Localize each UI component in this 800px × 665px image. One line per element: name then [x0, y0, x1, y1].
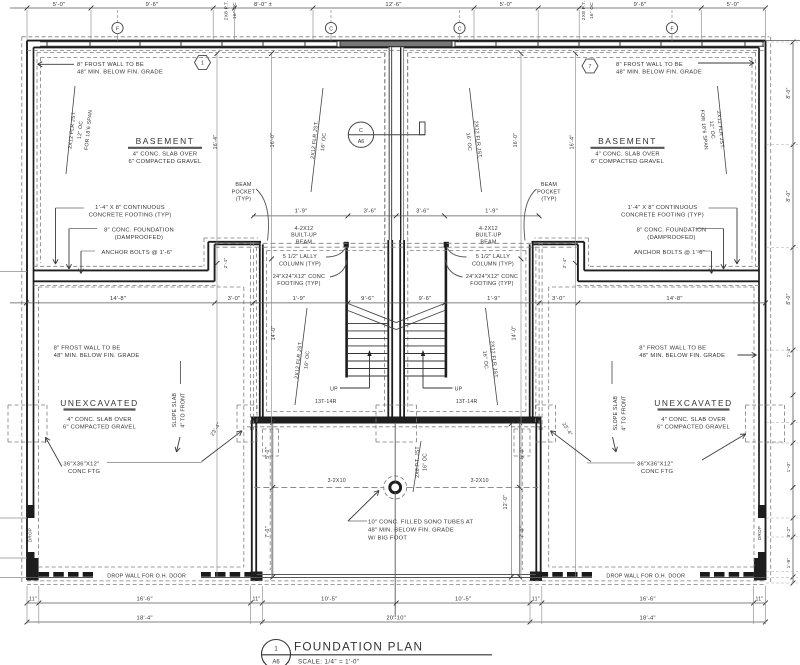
svg-text:36"X36"X12": 36"X36"X12" [637, 462, 673, 468]
svg-text:BEAM: BEAM [480, 239, 497, 245]
svg-text:6" COMPACTED GRAVEL: 6" COMPACTED GRAVEL [63, 425, 136, 431]
svg-text:4" TO FRONT: 4" TO FRONT [622, 395, 628, 431]
svg-text:3'-2": 3'-2" [786, 527, 792, 538]
svg-text:8'-0": 8'-0" [786, 190, 792, 201]
svg-text:POCKET: POCKET [232, 189, 256, 195]
svg-text:COLUMN (TYP): COLUMN (TYP) [472, 261, 514, 267]
svg-text:16'-0": 16'-0" [270, 133, 276, 148]
svg-text:48" MIN. BELOW FIN. GRADE: 48" MIN. BELOW FIN. GRADE [368, 528, 454, 534]
svg-text:8" FROST WALL TO BE: 8" FROST WALL TO BE [616, 62, 683, 68]
svg-text:UP: UP [455, 387, 463, 393]
svg-text:2X8 P.T.: 2X8 P.T. [224, 1, 230, 21]
svg-text:BEAM: BEAM [235, 182, 252, 188]
svg-text:3'-6": 3'-6" [416, 209, 429, 215]
svg-text:BASEMENT: BASEMENT [136, 136, 195, 146]
svg-text:DROP WALL FOR O.H. DOOR: DROP WALL FOR O.H. DOOR [606, 574, 685, 580]
svg-text:ANCHOR BOLTS @ 1'-6": ANCHOR BOLTS @ 1'-6" [102, 250, 173, 256]
svg-text:10'-5": 10'-5" [455, 597, 471, 603]
svg-text:4" TO FRONT: 4" TO FRONT [181, 392, 187, 428]
svg-text:5'-0": 5'-0" [520, 447, 526, 459]
svg-text:1'-4": 1'-4" [786, 347, 792, 358]
svg-text:9'-6": 9'-6" [634, 2, 647, 8]
svg-text:4" CONC. SLAB OVER: 4" CONC. SLAB OVER [661, 417, 726, 423]
svg-text:SCALE: 1/4" = 1'-0": SCALE: 1/4" = 1'-0" [298, 658, 360, 665]
svg-text:3'-0": 3'-0" [228, 296, 241, 302]
svg-text:C: C [458, 26, 462, 32]
svg-text:(TYP): (TYP) [236, 197, 251, 203]
svg-text:DROP: DROP [757, 526, 762, 540]
svg-text:A6: A6 [358, 139, 365, 145]
svg-text:16" OC: 16" OC [589, 2, 595, 19]
svg-text:C: C [329, 26, 333, 32]
svg-text:18'-4": 18'-4" [137, 616, 153, 622]
svg-text:1'-9": 1'-9" [485, 209, 498, 215]
svg-text:16'-4": 16'-4" [570, 135, 576, 150]
svg-text:7'-0": 7'-0" [265, 526, 271, 538]
svg-text:4-2X12: 4-2X12 [479, 226, 498, 232]
svg-text:BUILT-UP: BUILT-UP [291, 233, 317, 239]
svg-text:3-2X10: 3-2X10 [328, 478, 346, 484]
svg-text:48" MIN. BELOW FIN. GRADE: 48" MIN. BELOW FIN. GRADE [77, 69, 163, 75]
svg-text:11": 11" [29, 597, 37, 603]
svg-text:(TYP): (TYP) [541, 197, 556, 203]
svg-text:BEAM: BEAM [541, 182, 558, 188]
svg-text:24"X24"X12" CONC: 24"X24"X12" CONC [466, 274, 518, 280]
svg-text:(DAMPROOFED): (DAMPROOFED) [115, 235, 163, 241]
svg-text:1'-4" X 8" CONTINUOUS: 1'-4" X 8" CONTINUOUS [95, 205, 165, 211]
svg-text:CONCRETE FOOTING (TYP): CONCRETE FOOTING (TYP) [621, 212, 704, 218]
svg-text:FOUNDATION PLAN: FOUNDATION PLAN [294, 640, 423, 654]
svg-text:10'-5": 10'-5" [321, 597, 337, 603]
svg-text:FOOTING (TYP): FOOTING (TYP) [470, 281, 513, 287]
svg-text:16" OC: 16" OC [232, 2, 238, 19]
svg-text:5 1/2" LALLY: 5 1/2" LALLY [476, 254, 510, 260]
svg-text:9'-6": 9'-6" [361, 296, 374, 302]
svg-text:4" CONC. SLAB OVER: 4" CONC. SLAB OVER [595, 152, 660, 158]
svg-text:6" COMPACTED GRAVEL: 6" COMPACTED GRAVEL [657, 425, 730, 431]
svg-text:11": 11" [756, 597, 764, 603]
svg-text:6" COMPACTED GRAVEL: 6" COMPACTED GRAVEL [129, 159, 202, 165]
svg-text:9'-6": 9'-6" [146, 2, 159, 8]
svg-text:8" FROST WALL TO BE: 8" FROST WALL TO BE [54, 346, 121, 352]
svg-text:3-2X10: 3-2X10 [471, 478, 489, 484]
svg-text:(DAMPROOFED): (DAMPROOFED) [647, 235, 695, 241]
svg-text:1'-9": 1'-9" [487, 296, 500, 302]
svg-text:8'-0": 8'-0" [786, 87, 792, 98]
svg-text:10" CONC. FILLED SONO TUBES AT: 10" CONC. FILLED SONO TUBES AT [368, 520, 474, 526]
svg-text:5'-0": 5'-0" [265, 447, 271, 459]
svg-text:4-2X12: 4-2X12 [295, 226, 314, 232]
svg-text:UNEXCAVATED: UNEXCAVATED [654, 398, 733, 408]
svg-text:20'-10": 20'-10" [386, 616, 406, 622]
svg-text:5'-0": 5'-0" [53, 2, 66, 8]
svg-text:3'-6": 3'-6" [364, 209, 377, 215]
svg-text:DROP: DROP [27, 528, 32, 542]
svg-text:1'-9": 1'-9" [293, 296, 306, 302]
svg-text:16" OC: 16" OC [423, 453, 429, 471]
svg-text:13T-14R: 13T-14R [456, 399, 478, 405]
svg-text:11": 11" [253, 597, 261, 603]
svg-text:4" CONC. SLAB OVER: 4" CONC. SLAB OVER [67, 417, 132, 423]
svg-text:5 1/2" LALLY: 5 1/2" LALLY [283, 254, 317, 260]
svg-text:9'-6": 9'-6" [419, 296, 432, 302]
svg-text:4" CONC. SLAB OVER: 4" CONC. SLAB OVER [133, 152, 198, 158]
svg-text:36"X36"X12": 36"X36"X12" [63, 462, 99, 468]
svg-text:1'-4" X 8" CONTINUOUS: 1'-4" X 8" CONTINUOUS [628, 205, 698, 211]
svg-text:UNEXCAVATED: UNEXCAVATED [60, 398, 139, 408]
svg-text:16'-0": 16'-0" [513, 133, 519, 148]
svg-text:14'-8": 14'-8" [666, 296, 682, 302]
svg-text:FOOTING (TYP): FOOTING (TYP) [277, 281, 320, 287]
svg-text:POCKET: POCKET [537, 189, 561, 195]
svg-text:13T-14R: 13T-14R [315, 399, 337, 405]
svg-text:1: 1 [201, 61, 204, 67]
svg-text:24"X24"X12" CONC: 24"X24"X12" CONC [273, 274, 325, 280]
svg-text:18'-4": 18'-4" [640, 616, 656, 622]
svg-text:1'-0": 1'-0" [786, 462, 792, 473]
svg-text:16'-6": 16'-6" [640, 597, 656, 603]
svg-text:UP: UP [330, 387, 338, 393]
svg-text:2'-4": 2'-4" [562, 258, 568, 269]
svg-text:1'-9": 1'-9" [295, 209, 308, 215]
svg-text:CONCRETE FOOTING (TYP): CONCRETE FOOTING (TYP) [89, 212, 172, 218]
svg-text:BEAM: BEAM [296, 239, 313, 245]
svg-text:8" FROST WALL TO BE: 8" FROST WALL TO BE [77, 62, 144, 68]
svg-text:2X8 P.T.: 2X8 P.T. [581, 1, 587, 21]
svg-text:48" MIN. BELOW FIN. GRADE: 48" MIN. BELOW FIN. GRADE [639, 353, 725, 359]
svg-text:ANCHOR BOLTS @ 1'-6": ANCHOR BOLTS @ 1'-6" [634, 250, 705, 256]
svg-text:CONC FTG: CONC FTG [68, 469, 101, 475]
svg-text:1'-8": 1'-8" [786, 558, 792, 569]
svg-text:F: F [116, 26, 119, 32]
svg-text:48" MIN. BELOW FIN. GRADE: 48" MIN. BELOW FIN. GRADE [54, 353, 140, 359]
svg-text:8'-0": 8'-0" [786, 293, 792, 304]
svg-text:14'-0": 14'-0" [512, 326, 518, 341]
svg-text:A6: A6 [272, 660, 280, 665]
svg-text:14'-8": 14'-8" [110, 296, 126, 302]
svg-text:W/ BIG FOOT: W/ BIG FOOT [368, 536, 407, 542]
svg-text:8" FROST WALL TO BE: 8" FROST WALL TO BE [639, 346, 706, 352]
svg-text:DROP WALL FOR O.H. DOOR: DROP WALL FOR O.H. DOOR [107, 574, 186, 580]
svg-text:8'-0" ±: 8'-0" ± [254, 2, 272, 8]
svg-text:16'-4": 16'-4" [213, 135, 219, 150]
svg-text:SLOPE SLAB: SLOPE SLAB [172, 392, 178, 427]
svg-text:48" MIN. BELOW FIN. GRADE: 48" MIN. BELOW FIN. GRADE [616, 69, 702, 75]
svg-text:2'-4": 2'-4" [223, 258, 229, 269]
svg-text:F: F [670, 26, 673, 32]
svg-text:12'-0": 12'-0" [503, 495, 509, 510]
svg-text:6" COMPACTED GRAVEL: 6" COMPACTED GRAVEL [591, 159, 664, 165]
svg-text:5'-0": 5'-0" [727, 2, 740, 8]
svg-text:8" CONC. FOUNDATION: 8" CONC. FOUNDATION [104, 228, 174, 234]
svg-text:BUILT-UP: BUILT-UP [476, 233, 502, 239]
svg-text:COLUMN (TYP): COLUMN (TYP) [279, 261, 321, 267]
svg-text:CONC FTG: CONC FTG [641, 469, 674, 475]
svg-text:7'-0": 7'-0" [520, 526, 526, 538]
svg-text:14'-0": 14'-0" [271, 326, 277, 341]
svg-text:BASEMENT: BASEMENT [598, 136, 657, 146]
svg-text:5'-0": 5'-0" [500, 2, 513, 8]
svg-text:7: 7 [589, 64, 592, 70]
svg-text:SLOPE SLAB: SLOPE SLAB [613, 395, 619, 430]
svg-text:16'-6": 16'-6" [137, 597, 153, 603]
svg-text:11": 11" [532, 597, 540, 603]
svg-text:C: C [359, 128, 363, 134]
svg-text:12'-6": 12'-6" [385, 2, 401, 8]
svg-text:3'-0": 3'-0" [552, 296, 565, 302]
